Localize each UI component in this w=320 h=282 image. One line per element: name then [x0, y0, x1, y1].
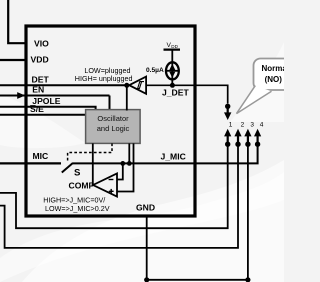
svg-text:2: 2: [241, 121, 245, 128]
dashed control wire oscillator to switch: [68, 143, 112, 161]
node pin3 dot: [245, 142, 250, 147]
current source I1 0.5uA: [166, 62, 179, 79]
node oscillator drive dot: [127, 161, 132, 166]
node pin2 dot: [235, 142, 240, 147]
wire DET to logic: [126, 85, 128, 110]
wire jack pin2 to left (headphone R): [0, 144, 238, 248]
wire GND pin down: [146, 216, 148, 280]
switch S arm: [62, 163, 73, 173]
svg-text:VIO: VIO: [34, 39, 49, 49]
svg-text:DD: DD: [171, 44, 178, 49]
node DET junction dot: [124, 83, 129, 88]
wire oscillator to J_MIC: [128, 143, 130, 163]
wire J_MIC to comparator minus input: [117, 163, 123, 179]
svg-text:3: 3: [250, 121, 254, 128]
wire S/E: [0, 114, 86, 116]
node pin3 ground corner dot: [245, 277, 250, 282]
wire comparator output to logic: [92, 143, 94, 185]
jack pin 4 arrow: [254, 129, 261, 137]
node GND junction dot: [144, 277, 149, 282]
node pin1 dot: [225, 142, 230, 147]
wire DET: [0, 84, 127, 86]
wire JPOLE: [0, 107, 96, 111]
comparator COMP: [93, 173, 117, 196]
node J_MIC to comparator minus dot: [120, 161, 125, 166]
wire J_DET: [146, 85, 228, 103]
svg-text:DET: DET: [32, 74, 50, 84]
wire jack pin1 to left (headphone L): [0, 144, 228, 228]
svg-text:and Logic: and Logic: [97, 124, 130, 133]
svg-text:(NO): (NO): [265, 75, 283, 84]
jack NO moving contact arrow down: [227, 106, 229, 113]
svg-text:COMP: COMP: [69, 180, 95, 190]
wire VIO input: [8, 0, 26, 43]
svg-text:MIC: MIC: [33, 151, 49, 161]
oscillator logic box: [86, 110, 141, 144]
wire EN drop to logic: [109, 96, 111, 111]
svg-text:4: 4: [260, 121, 264, 128]
svg-text:J_DET: J_DET: [162, 87, 189, 97]
wire ground bus to jack pin3: [147, 279, 248, 281]
jack pin 3 arrow: [244, 129, 251, 137]
svg-text:VDD: VDD: [31, 54, 49, 64]
svg-text:S: S: [74, 168, 81, 179]
wire MIC: [0, 162, 61, 164]
wire EN with arrowhead: [0, 95, 110, 97]
node jack NO contact dot: [225, 104, 230, 109]
svg-text:HIGH= unplugged: HIGH= unplugged: [75, 74, 133, 83]
callout bubble Normally Open (NO): [254, 59, 300, 91]
node J_DET junction dot: [170, 83, 175, 88]
svg-text:1: 1: [229, 121, 233, 128]
svg-text:GND: GND: [136, 203, 155, 213]
jack pin 1 arrow: [224, 129, 231, 137]
node pin4 dot: [255, 142, 260, 147]
jack pin 2 arrow: [234, 129, 241, 137]
IC box U1: [26, 26, 195, 216]
svg-text:Oscillator: Oscillator: [97, 114, 129, 123]
wire J_MIC: [73, 144, 258, 163]
wire reference to comparator plus input: [117, 143, 134, 191]
svg-text:EN: EN: [32, 85, 44, 95]
wire jack pin3 down to ground bus: [247, 144, 249, 280]
svg-text:LOW=>J_MIC>0.2V: LOW=>J_MIC>0.2V: [45, 204, 110, 213]
wire VDD input: [0, 59, 26, 61]
svg-text:Normally: Normally: [262, 64, 285, 73]
svg-text:0.5µA: 0.5µA: [146, 67, 164, 74]
svg-text:J_MIC: J_MIC: [161, 151, 186, 161]
schmitt buffer U2: [129, 77, 146, 94]
